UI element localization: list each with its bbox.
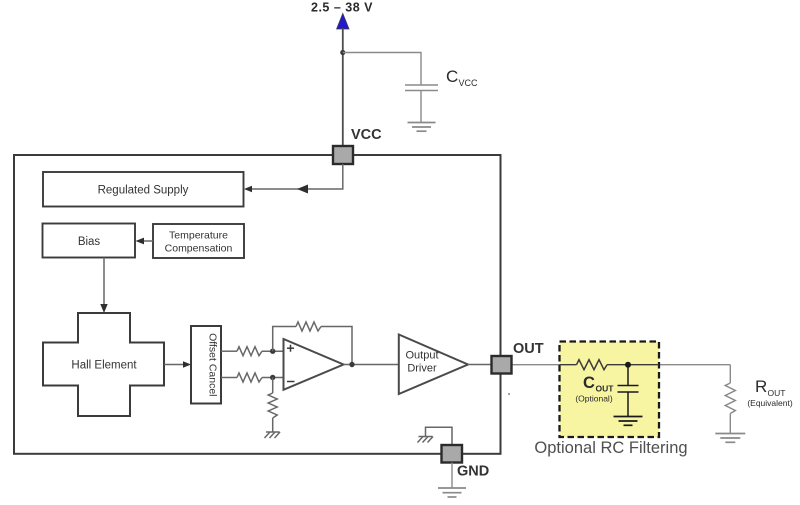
arrowhead mid (to regulated supply) (297, 185, 308, 194)
wire offset cancel to minus input (221, 377, 237, 379)
resistor RC filter (560, 360, 660, 370)
svg-text:Offset Cancel: Offset Cancel (207, 333, 219, 396)
svg-text:OUT: OUT (768, 388, 786, 398)
svg-text:(Optional): (Optional) (575, 394, 612, 404)
resistor ROUT (725, 383, 735, 414)
node plus junction (270, 349, 275, 354)
wire supply vertical (342, 28, 344, 146)
block Offset Cancel (191, 326, 221, 404)
wire resistor to opamp minus (262, 377, 284, 379)
IC boundary (14, 155, 501, 454)
node supply junction (340, 50, 345, 55)
label ROUT (747, 377, 793, 408)
resistor R minus (237, 373, 262, 382)
node minus junction (270, 375, 275, 380)
op-amp U1 (284, 339, 344, 390)
svg-text:2.5 – 38 V: 2.5 – 38 V (311, 1, 373, 15)
block Bias (43, 224, 136, 258)
ground (Cout) (614, 417, 643, 426)
wire vcc to regulated supply (246, 164, 343, 189)
node filter junction (625, 362, 631, 368)
svg-text:Driver: Driver (407, 363, 437, 375)
pin OUT (492, 356, 512, 374)
block Regulated Supply (43, 172, 244, 207)
pin VCC (333, 146, 353, 164)
supply arrow (blue) (337, 14, 349, 30)
svg-text:VCC: VCC (351, 127, 382, 143)
svg-text:Regulated Supply: Regulated Supply (98, 185, 189, 197)
wire temp comp to bias (144, 240, 153, 242)
wire gnd pin to earth (451, 463, 453, 489)
pin GND (442, 445, 463, 463)
ground (amp, hatched) (265, 432, 281, 438)
svg-text:VCC: VCC (459, 78, 479, 88)
resistor R plus (237, 347, 262, 356)
wire hall to offset cancel (164, 364, 184, 366)
svg-text:(Equivalent): (Equivalent) (747, 398, 793, 408)
wire ROUT to ground (729, 414, 731, 434)
node output junction (349, 362, 354, 367)
feedback wire (273, 327, 296, 352)
wire bias to hall element (103, 258, 105, 306)
ground (internal, hatched) (418, 437, 434, 443)
svg-text:Hall Element: Hall Element (71, 360, 137, 372)
feedback wire right (321, 327, 352, 365)
svg-text:Temperature: Temperature (169, 230, 228, 242)
resistor to ground (268, 393, 277, 418)
wire opamp out to driver (344, 364, 400, 366)
wire driver to OUT pin (468, 364, 492, 366)
block Temperature Compensation (153, 224, 244, 258)
svg-text:C: C (583, 374, 595, 392)
ground (GND pin) (438, 488, 466, 497)
svg-text:GND: GND (457, 464, 489, 480)
hall element (43, 313, 164, 416)
stray dot (508, 393, 510, 395)
wire OUT to ROUT (511, 364, 730, 366)
arrowhead at regulated supply edge (244, 186, 252, 193)
svg-text:OUT: OUT (596, 384, 615, 394)
svg-text:Optional RC Filtering: Optional RC Filtering (534, 439, 687, 457)
svg-text:R: R (755, 377, 767, 396)
svg-text:Output: Output (405, 350, 438, 362)
wire to Cvcc (343, 53, 421, 86)
label COUT (575, 374, 614, 404)
svg-text:OUT: OUT (513, 341, 544, 357)
capacitor COUT (618, 365, 639, 417)
wire resistor to opamp plus (262, 350, 284, 352)
capacitor CVCC (405, 85, 438, 122)
wire internal gnd hook (426, 427, 453, 445)
wire offset cancel to plus input (221, 350, 237, 352)
label CVCC (446, 67, 478, 88)
ground (Cvcc) (408, 123, 436, 132)
wire down to ROUT (729, 365, 731, 383)
optional RC filter box (560, 342, 660, 438)
ground (Rout) (715, 434, 745, 443)
svg-text:Compensation: Compensation (165, 243, 233, 255)
resistor feedback (296, 322, 321, 331)
wire minus to ground resistor (272, 378, 274, 394)
svg-text:Bias: Bias (78, 236, 101, 248)
svg-text:C: C (446, 67, 458, 86)
wire resistor to amp ground (272, 418, 274, 432)
output driver (399, 335, 468, 395)
